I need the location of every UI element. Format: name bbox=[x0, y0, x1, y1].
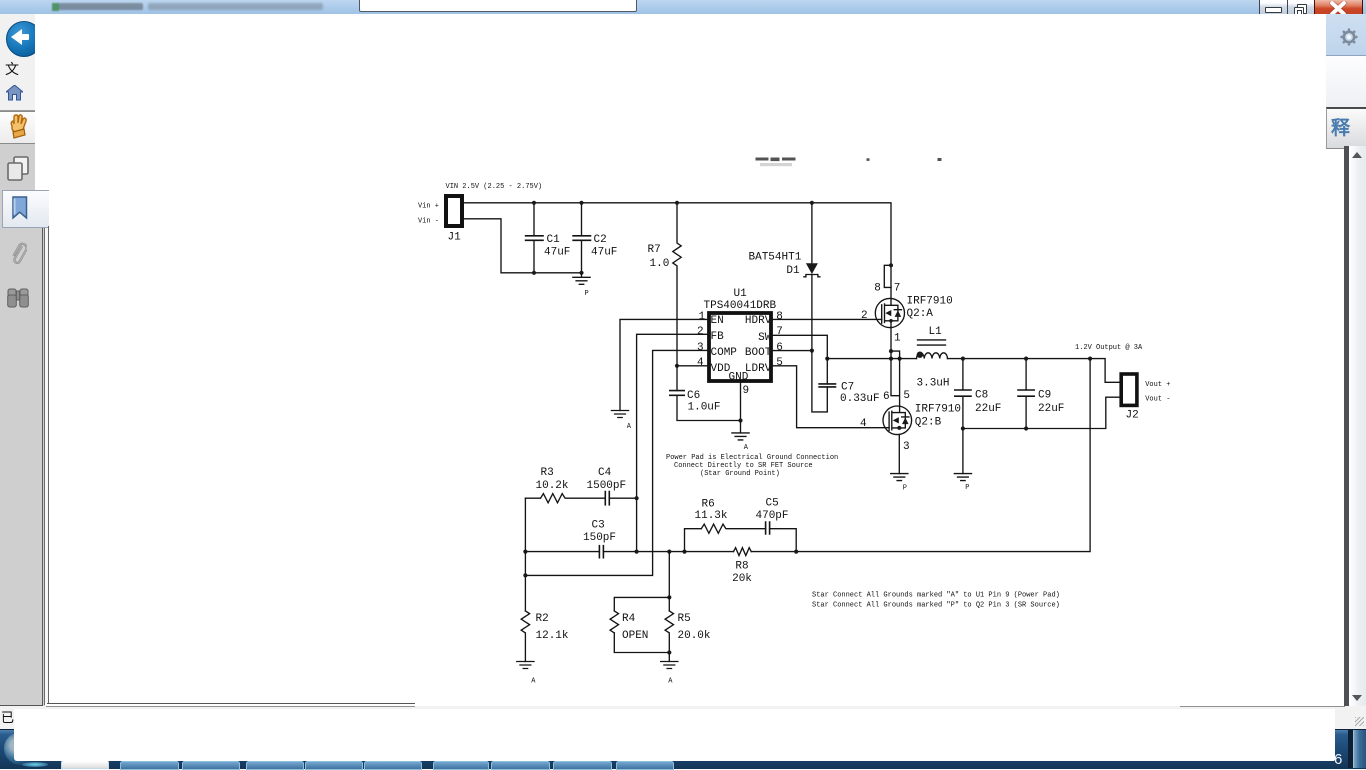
node C1/return bbox=[532, 271, 536, 275]
svg-text:Q2:A: Q2:A bbox=[907, 308, 934, 320]
node Vout feedback tap bbox=[1088, 357, 1092, 361]
svg-text:Vin +: Vin + bbox=[418, 203, 439, 211]
svg-text:1: 1 bbox=[699, 311, 706, 323]
transistor Q2:B IRF7910 bbox=[860, 390, 961, 453]
wire SW to C7 bbox=[771, 335, 827, 384]
ground P at Q2:B bbox=[891, 474, 908, 493]
svg-text:R3: R3 bbox=[541, 467, 554, 479]
taskbar bbox=[0, 729, 1366, 769]
search box in title bar bbox=[359, 0, 637, 12]
node Q2:A drain tie bbox=[889, 263, 893, 267]
svg-text:1: 1 bbox=[894, 333, 901, 345]
svg-text:A: A bbox=[668, 678, 673, 686]
node R6 stub left bbox=[682, 550, 686, 554]
svg-text:8: 8 bbox=[874, 283, 881, 295]
node R7/VIN bbox=[675, 201, 679, 205]
resistor R4 bbox=[610, 611, 648, 642]
capacitor C6 bbox=[669, 366, 741, 421]
svg-text:P: P bbox=[585, 290, 589, 298]
svg-text:R6: R6 bbox=[702, 499, 715, 511]
svg-text:1.0uF: 1.0uF bbox=[688, 402, 721, 414]
blue circular back button bbox=[6, 21, 42, 57]
wire comp left rail bbox=[524, 498, 526, 611]
node C2/return bbox=[579, 271, 583, 275]
ground A at U1 pin 9 bbox=[732, 433, 749, 452]
inductor L1 bbox=[917, 326, 950, 390]
svg-text:U1: U1 bbox=[734, 288, 748, 300]
node SW/Q2 left bbox=[889, 357, 893, 361]
node C8 bottom bbox=[961, 426, 965, 430]
capacitor C8 bbox=[954, 359, 1001, 474]
svg-text:VIN 2.5V (2.25 - 2.75V): VIN 2.5V (2.25 - 2.75V) bbox=[446, 183, 543, 191]
resistor R7 bbox=[648, 203, 682, 366]
svg-text:6: 6 bbox=[883, 391, 890, 403]
svg-text:L1: L1 bbox=[929, 326, 943, 338]
capacitor C2 bbox=[572, 203, 617, 273]
svg-text:6: 6 bbox=[776, 342, 783, 354]
svg-text:3: 3 bbox=[903, 441, 910, 453]
svg-text:FB: FB bbox=[711, 331, 725, 343]
svg-text:7: 7 bbox=[894, 283, 901, 295]
left sidebar bbox=[0, 14, 36, 110]
node C1/VIN bbox=[532, 201, 536, 205]
window buttons bbox=[1259, 0, 1289, 18]
svg-text:2: 2 bbox=[697, 326, 704, 338]
svg-text:11.3k: 11.3k bbox=[695, 510, 728, 522]
node SW/Q2 right bbox=[898, 357, 902, 361]
resistor R5 bbox=[665, 611, 711, 662]
wire HDRV to Q2:A gate bbox=[771, 318, 882, 320]
svg-text:IRF7910: IRF7910 bbox=[907, 296, 953, 308]
node C9 top bbox=[1024, 357, 1028, 361]
title bar bbox=[0, 0, 1366, 14]
wire COMP bbox=[525, 350, 709, 575]
connector J1 bbox=[418, 183, 542, 244]
node FB line left bbox=[523, 550, 527, 554]
node GND pin joint bbox=[738, 418, 742, 422]
connector J2 bbox=[1075, 344, 1170, 422]
svg-text:IRF7910: IRF7910 bbox=[915, 404, 961, 416]
svg-text:COMP: COMP bbox=[711, 347, 738, 359]
wire feedback tap bbox=[751, 359, 1090, 552]
svg-text:Power Pad is Electrical Ground: Power Pad is Electrical Ground Connectio… bbox=[666, 454, 838, 462]
svg-text:4: 4 bbox=[860, 418, 867, 430]
svg-text:3.3uH: 3.3uH bbox=[917, 378, 950, 390]
svg-text:1500pF: 1500pF bbox=[587, 480, 627, 492]
wire Q2:A source to SW node bbox=[891, 328, 900, 407]
svg-text:P: P bbox=[903, 485, 907, 493]
文件 menu text bbox=[5, 59, 19, 79]
svg-text:R7: R7 bbox=[648, 244, 661, 256]
svg-text:D1: D1 bbox=[786, 265, 800, 277]
svg-text:Q2:B: Q2:B bbox=[915, 417, 942, 429]
capacitor C4 bbox=[587, 467, 637, 506]
node R6 stub right bbox=[794, 550, 798, 554]
wire BOOT bbox=[771, 350, 812, 352]
svg-text:2: 2 bbox=[861, 310, 868, 322]
hand tool button (active) bbox=[0, 111, 37, 144]
ground P at C2 bbox=[573, 273, 590, 298]
node R5 top tee bbox=[667, 550, 671, 554]
paperclip icon bbox=[9, 242, 27, 268]
svg-text:C9: C9 bbox=[1038, 390, 1051, 402]
svg-text:C6: C6 bbox=[687, 390, 700, 402]
svg-text:R5: R5 bbox=[678, 613, 691, 625]
svg-text:(Star Ground Point): (Star Ground Point) bbox=[700, 470, 780, 478]
svg-text:4: 4 bbox=[697, 357, 704, 369]
svg-text:20.0k: 20.0k bbox=[678, 630, 711, 642]
ground A at R2 bbox=[517, 662, 536, 686]
svg-text:EN: EN bbox=[711, 315, 724, 327]
svg-text:22uF: 22uF bbox=[975, 403, 1001, 415]
wire R4 branch bbox=[614, 597, 669, 652]
pins 8/7 drain tie bracket bbox=[884, 265, 891, 287]
svg-text:GND: GND bbox=[729, 372, 749, 384]
annotation star connect note bbox=[812, 592, 1060, 610]
resistor R2 bbox=[521, 611, 569, 662]
capacitor C7 bbox=[812, 351, 880, 412]
node BOOT/D1/C7 bbox=[810, 349, 814, 353]
pages icon bbox=[7, 156, 29, 182]
node VDD tee bbox=[675, 364, 679, 368]
svg-text:C4: C4 bbox=[598, 467, 612, 479]
wire SW node to J2 via L1 bbox=[827, 359, 1121, 383]
svg-text:J2: J2 bbox=[1126, 410, 1139, 422]
node R4/R5 bottom bbox=[667, 650, 671, 654]
home icon bbox=[6, 85, 23, 101]
node R4/R5 top bbox=[667, 595, 671, 599]
wire VDD bbox=[677, 365, 709, 367]
resistor R8 bbox=[732, 548, 752, 585]
svg-text:P: P bbox=[965, 484, 969, 492]
bookmark button (selected) bbox=[2, 190, 50, 228]
wire Vout- to J2 bbox=[963, 397, 1121, 428]
svg-text:C2: C2 bbox=[594, 234, 607, 246]
node D1/VIN bbox=[810, 201, 814, 205]
svg-text:10.2k: 10.2k bbox=[536, 480, 569, 492]
svg-text:Vout -: Vout - bbox=[1145, 396, 1170, 404]
svg-text:0.33uF: 0.33uF bbox=[840, 393, 880, 405]
node comp rail/COMP wire bbox=[523, 573, 527, 577]
resistor R3 bbox=[525, 467, 605, 503]
capacitor C9 bbox=[1017, 359, 1064, 429]
svg-text:Star Connect All Grounds marke: Star Connect All Grounds marked "A" to U… bbox=[812, 592, 1060, 600]
node C8 top bbox=[961, 357, 965, 361]
svg-text:A: A bbox=[531, 678, 536, 686]
svg-text:8: 8 bbox=[776, 311, 783, 323]
ground P at C8 bbox=[954, 474, 971, 492]
svg-text:R8: R8 bbox=[735, 561, 748, 573]
svg-text:Vin -: Vin - bbox=[418, 218, 439, 226]
wire Q2:B source bbox=[898, 435, 900, 474]
svg-text:HDRV: HDRV bbox=[745, 315, 772, 327]
clipped text fragment at page top bbox=[756, 158, 942, 167]
node Q2:A source stub bbox=[889, 349, 893, 353]
wire VIN rail to Q2:A drain bbox=[464, 203, 891, 299]
capacitor C3 bbox=[583, 520, 616, 559]
svg-text:R2: R2 bbox=[536, 613, 549, 625]
svg-text:LDRV: LDRV bbox=[745, 363, 772, 375]
svg-text:C3: C3 bbox=[592, 520, 605, 532]
resistor R6 bbox=[685, 499, 766, 552]
node SW/C7 bbox=[825, 357, 829, 361]
start orb bbox=[4, 732, 38, 765]
svg-text:OPEN: OPEN bbox=[622, 630, 648, 642]
wire FB bbox=[637, 334, 709, 551]
wire U1 GND pin 9 bbox=[740, 383, 742, 433]
transistor Q2:A IRF7910 bbox=[861, 265, 953, 344]
IC U1 TPS40041DRB bbox=[697, 288, 783, 397]
scrollbar column bbox=[1349, 146, 1366, 706]
node C2/VIN bbox=[579, 201, 583, 205]
wire LDRV to Q2:B gate bbox=[771, 366, 889, 428]
svg-text:47uF: 47uF bbox=[544, 247, 570, 259]
node FB/R3C4 bbox=[635, 496, 639, 500]
ground A at EN bbox=[611, 411, 631, 431]
wire EN to ground bbox=[620, 319, 709, 410]
svg-text:3: 3 bbox=[697, 342, 704, 354]
svg-text:5: 5 bbox=[903, 390, 910, 402]
page bottom border bbox=[47, 703, 415, 704]
capacitor C1 bbox=[525, 203, 571, 273]
svg-text:SW: SW bbox=[758, 332, 772, 344]
right column bbox=[1326, 14, 1366, 56]
annotation star ground note bbox=[666, 454, 838, 478]
svg-text:A: A bbox=[744, 444, 749, 452]
svg-text:150pF: 150pF bbox=[583, 532, 616, 544]
svg-text:R4: R4 bbox=[622, 613, 636, 625]
wire FB node line bbox=[525, 551, 733, 553]
svg-text:J1: J1 bbox=[448, 232, 462, 244]
svg-text:9: 9 bbox=[743, 385, 750, 397]
svg-text:BOOT: BOOT bbox=[745, 347, 772, 359]
svg-text:A: A bbox=[627, 423, 632, 431]
svg-text:7: 7 bbox=[776, 326, 783, 338]
svg-text:C1: C1 bbox=[547, 234, 561, 246]
binoculars icon bbox=[7, 286, 29, 309]
svg-text:20k: 20k bbox=[732, 573, 752, 585]
svg-text:Vout +: Vout + bbox=[1145, 381, 1170, 389]
svg-text:1.2V Output @ 3A: 1.2V Output @ 3A bbox=[1075, 344, 1143, 352]
ground A at R5 bbox=[661, 662, 678, 686]
svg-text:BAT54HT1: BAT54HT1 bbox=[749, 252, 802, 264]
svg-text:C7: C7 bbox=[841, 382, 854, 394]
node C9 bottom bbox=[1024, 426, 1028, 430]
svg-text:47uF: 47uF bbox=[591, 247, 617, 259]
svg-text:470pF: 470pF bbox=[756, 510, 789, 522]
svg-text:C8: C8 bbox=[975, 390, 988, 402]
svg-text:22uF: 22uF bbox=[1038, 403, 1064, 415]
diode D1 bbox=[749, 203, 820, 351]
wire Vin- return to C2 bbox=[464, 219, 582, 273]
capacitor C5 bbox=[756, 498, 797, 552]
svg-text:C5: C5 bbox=[766, 498, 779, 510]
svg-text:TPS40041DRB: TPS40041DRB bbox=[704, 300, 777, 312]
svg-text:12.1k: 12.1k bbox=[536, 630, 569, 642]
wire R5 branch bbox=[668, 552, 670, 611]
svg-text:Connect Directly to SR FET Sou: Connect Directly to SR FET Source bbox=[674, 462, 813, 470]
show desktop bbox=[1348, 730, 1353, 768]
svg-text:1.0: 1.0 bbox=[650, 258, 670, 270]
annotation button 释 bbox=[1326, 107, 1366, 149]
node FB/C3 bbox=[635, 550, 639, 554]
svg-text:Star Connect All Grounds marke: Star Connect All Grounds marked "P" to Q… bbox=[812, 602, 1060, 610]
svg-text:5: 5 bbox=[776, 357, 783, 369]
